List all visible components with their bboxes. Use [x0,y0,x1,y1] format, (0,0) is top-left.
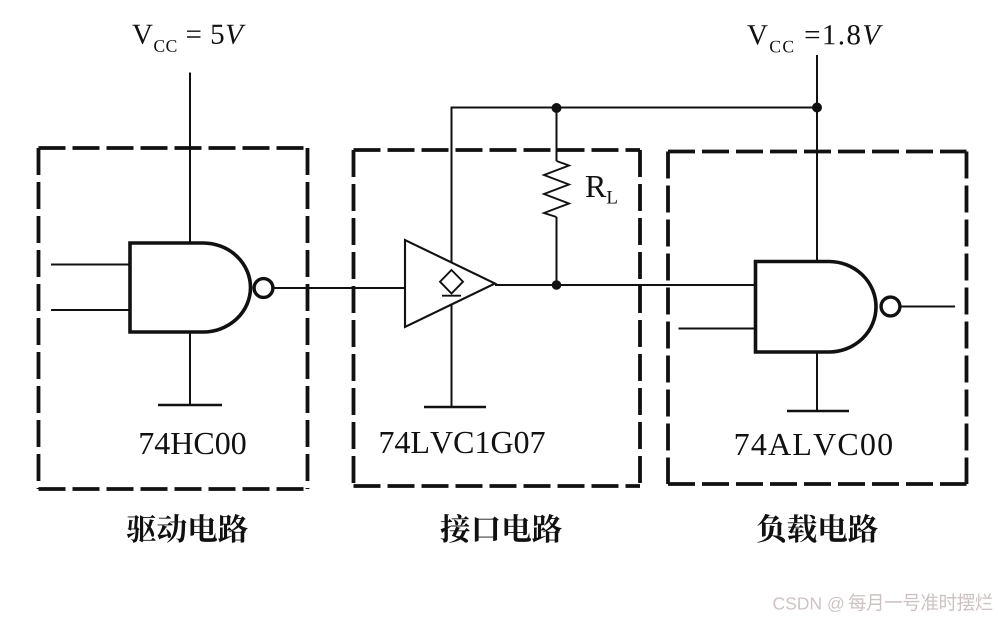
U1 output inversion bubble [254,279,273,298]
label: 接口电路 (interface circuit) [441,514,562,543]
NAND gate U1 74HC00 body [130,243,251,332]
wire: U1 input B [51,309,130,311]
wire: U1 output to buffer input [275,287,406,289]
label: 驱动电路 (drive circuit) [127,514,248,543]
wire: U1 input A [51,264,130,266]
label: VCC = 5V [132,25,245,52]
wire: 1.8V rail to resistor and buffer top [452,108,818,271]
ground U1: lead [189,332,191,405]
resistor RL zigzag [544,161,569,217]
ground U2: bar [424,406,486,409]
wire: resistor bottom lead to output node [556,217,558,285]
driver circuit dashed box [39,148,308,489]
interface circuit dashed box [354,150,641,486]
junction dot at buffer output node [552,280,562,290]
junction dot on 1.8V rail at resistor [552,103,562,113]
label: 74ALVC00 [736,434,892,456]
U3 output inversion bubble [881,297,900,316]
open-drain symbol diamond [440,270,463,294]
label: RL value [586,176,617,203]
ground U3: lead [816,352,818,411]
junction dot on 1.8V rail at Vcc drop [812,103,822,113]
label: VCC = 1.8V [747,25,883,52]
wire: Vcc 5V supply drop to U1 [189,73,191,244]
open-drain buffer U2 74LVC1G07 triangle [405,240,495,327]
wire: Vcc 1.8V supply drop to U3 [816,55,818,262]
wire: U3 second input stub [679,328,756,330]
label: 74HC00 [140,433,245,455]
ground U1: bar [158,404,222,407]
NAND gate U3 74ALVC00 body [756,262,877,353]
wire: buffer output to U3 input (node with RL) [495,284,756,286]
open-drain symbol underline [442,295,461,297]
label: 74LVC1G07 [381,432,545,454]
watermark CSDN text [773,597,843,612]
load circuit dashed box [668,152,967,485]
label: 负载电路 (load circuit) [757,514,878,543]
wire: U3 output [902,306,956,308]
ground U2: lead [451,304,453,408]
wire: resistor top lead [556,108,558,161]
ground U3: bar [787,410,849,413]
watermark CJK text [849,593,993,611]
